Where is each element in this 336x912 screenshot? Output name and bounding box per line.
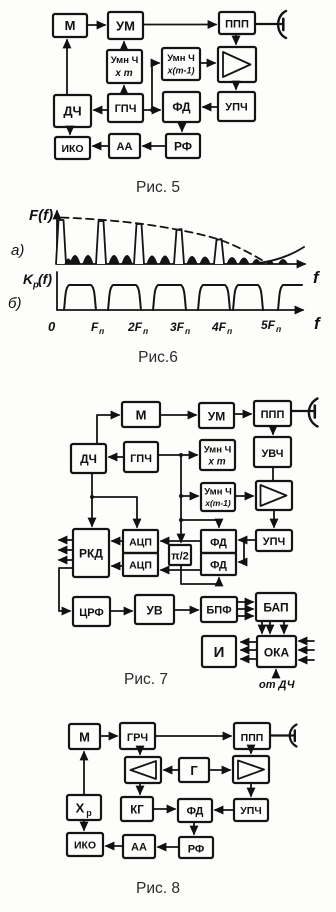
svg-text:б): б)	[8, 295, 21, 312]
wire М to ГРЧ (fig.8)	[100, 735, 117, 737]
svg-text:М: М	[65, 18, 76, 33]
svg-text:ФД: ФД	[210, 560, 227, 572]
svg-text:ДЧ: ДЧ	[63, 104, 81, 119]
wire УВ to БПФ	[174, 609, 198, 611]
block УПЧ (fig.5)	[218, 92, 255, 121]
block ППП (fig.7)	[254, 401, 291, 426]
filter passband pulse 2	[108, 285, 141, 310]
svg-text:УПЧ: УПЧ	[263, 536, 285, 548]
wire Хр to М (fig.8)	[83, 752, 85, 795]
svg-text:х(m-1): х(m-1)	[204, 498, 231, 508]
block М (fig.5 modulator)	[53, 14, 87, 37]
wire ДЧ up to М input	[97, 415, 119, 444]
block РФ (fig.5)	[166, 134, 200, 158]
wire РФ to АА	[143, 145, 166, 147]
svg-text:(f): (f)	[38, 271, 52, 287]
svg-text:ГРЧ: ГРЧ	[127, 732, 148, 744]
block УМ (fig.5)	[108, 12, 143, 39]
block ФД (fig.8)	[178, 799, 212, 822]
svg-text:от ДЧ: от ДЧ	[259, 679, 295, 691]
wire ППП to УВЧ	[272, 426, 274, 434]
block БПФ (fig.7)	[201, 597, 237, 622]
svg-text:π/2: π/2	[171, 551, 189, 563]
wire УПЧ to ФД	[203, 106, 218, 108]
block УВЧ (fig.7)	[254, 437, 291, 467]
wire Хр to ИКО (fig.8)	[83, 820, 85, 830]
block РФ (fig.8)	[179, 837, 213, 858]
svg-text:а): а)	[11, 242, 24, 259]
svg-text:Рис. 7: Рис. 7	[124, 671, 168, 688]
wire Г to right mixer	[209, 769, 230, 771]
wire АЦП lower to РКД	[112, 565, 123, 567]
svg-text:Умн Ч: Умн Ч	[204, 445, 232, 456]
svg-text:Х: Х	[76, 801, 85, 816]
wire right mixer to УПЧ (fig.8)	[250, 783, 252, 796]
svg-text:М: М	[79, 730, 90, 745]
svg-text:АА: АА	[131, 842, 147, 854]
junction dot ДЧ branch	[90, 495, 94, 499]
wire amplifier to УПЧ (fig.7)	[273, 510, 275, 527]
wire Г to left mixer	[164, 769, 179, 771]
spectral line peak 3	[134, 224, 144, 264]
svg-text:х(m-1): х(m-1)	[166, 66, 194, 76]
filter horizontal axis	[57, 309, 303, 311]
wire ГПЧ to ДЧ	[94, 109, 108, 111]
wire bus to Умн Ч х m (fig.7)	[181, 454, 197, 456]
svg-text:3F: 3F	[170, 320, 185, 334]
block ГРЧ (fig.8)	[120, 723, 155, 749]
block ГПЧ (fig.7)	[124, 442, 158, 472]
block ЦРФ (fig.7)	[73, 597, 110, 626]
block БАП (fig.7)	[256, 593, 296, 621]
dashed spectrum envelope	[61, 218, 265, 263]
wire ППП to right mixer	[250, 749, 252, 753]
svg-text:АА: АА	[117, 141, 133, 153]
block Г (fig.8)	[179, 758, 209, 782]
svg-text:п: п	[99, 326, 105, 336]
svg-text:4F: 4F	[211, 320, 227, 334]
wire УПЧ to ФД pair	[239, 540, 256, 562]
svg-text:Умн Ч: Умн Ч	[111, 55, 139, 66]
block ДЧ (fig.7)	[71, 444, 106, 473]
wire ГПЧ distribution bus	[158, 455, 181, 542]
filter passband pulse 5	[233, 285, 263, 310]
svg-text:ФД: ФД	[172, 100, 191, 114]
svg-text:М: М	[136, 408, 147, 423]
bus БАП to ОКА (3 lines)	[262, 621, 284, 633]
wire ДЧ down to РКД	[91, 473, 93, 526]
svg-text:х m: х m	[207, 457, 225, 468]
wire ГПЧ to Умн Ч х m	[123, 86, 125, 94]
wire Умн Ч х(m-1) to amplifier (fig.7)	[235, 495, 253, 497]
svg-text:КГ: КГ	[130, 805, 144, 817]
wire М to УМ	[87, 24, 105, 26]
block УМ (fig.7)	[199, 403, 234, 428]
svg-text:ИКО: ИКО	[61, 143, 83, 155]
wire от ДЧ into ОКА bottom	[275, 670, 277, 677]
phase shifter π/2 (fig.7)	[169, 545, 191, 565]
svg-text:х m: х m	[114, 68, 132, 79]
wire left mixer to КГ	[139, 783, 141, 794]
svg-text:ОКА: ОКА	[264, 646, 290, 660]
wire amplifier to УПЧ	[235, 82, 237, 89]
wire РКД to ЦРФ	[59, 568, 73, 611]
wire ГРЧ to ППП (fig.8)	[155, 735, 231, 737]
wire ФД to РФ	[181, 122, 183, 131]
wire ГРЧ to left mixer	[139, 749, 141, 754]
spectral line peak 5	[214, 239, 224, 264]
amplifier triangle block (fig.7)	[256, 481, 292, 510]
block Умн Ч х(m-1) (fig.5)	[162, 48, 200, 80]
svg-text:п: п	[185, 326, 191, 336]
svg-text:УПЧ: УПЧ	[240, 805, 261, 817]
wire РФ to АА (fig.8)	[158, 846, 179, 848]
wire ППП to amplifier	[235, 34, 237, 44]
wire УПЧ to ФД (fig.8)	[215, 809, 234, 811]
filter passband pulse 6 (truncated)	[278, 285, 302, 310]
svg-text:р: р	[86, 808, 92, 818]
svg-text:УПЧ: УПЧ	[225, 102, 247, 114]
svg-text:ЦРФ: ЦРФ	[79, 607, 104, 619]
block Хр (fig.8)	[67, 795, 101, 820]
wire УМ to ППП (fig.7)	[234, 413, 251, 415]
wire ФД upper to АЦП upper	[161, 540, 201, 542]
svg-text:2F: 2F	[127, 320, 143, 334]
svg-text:Рис.6: Рис.6	[138, 349, 178, 366]
rising envelope lobe curve	[253, 247, 304, 264]
svg-text:РФ: РФ	[174, 140, 192, 154]
svg-text:АЦП: АЦП	[129, 560, 152, 572]
spectrum horizontal axis	[57, 263, 305, 265]
block М (fig.8)	[69, 724, 100, 749]
block АА (fig.8)	[123, 835, 155, 858]
wire ЦРФ to УВ	[110, 610, 132, 612]
svg-text:0: 0	[48, 319, 56, 334]
mixer triangle block left (fig.8)	[125, 757, 161, 783]
block Умн Ч х m (fig.7)	[200, 440, 235, 470]
block М (fig.7)	[122, 402, 160, 427]
wire АЦП upper to РКД	[112, 540, 123, 542]
block ОКА (fig.7)	[257, 636, 296, 667]
svg-text:ГПЧ: ГПЧ	[115, 103, 137, 115]
wire ДЧ to ИКО	[69, 127, 71, 134]
block УПЧ (fig.8)	[234, 799, 268, 821]
svg-text:БПФ: БПФ	[206, 605, 231, 617]
wire Умн Ч х(m-1) to amplifier	[200, 62, 215, 64]
frequency tick labels	[48, 318, 282, 336]
svg-text:5F: 5F	[261, 318, 276, 332]
mixer triangle block right (fig.8)	[233, 756, 269, 783]
svg-text:ППП: ППП	[225, 19, 249, 31]
svg-text:f: f	[313, 268, 321, 287]
junction dots on bus	[179, 453, 183, 522]
block КГ (fig.8)	[121, 797, 153, 821]
wire АА to ИКО (fig.8)	[106, 845, 123, 847]
svg-text:ДЧ: ДЧ	[80, 452, 97, 466]
wire М to УМ (fig.7)	[160, 414, 196, 416]
wire ФД to РФ (fig.8)	[193, 822, 195, 834]
block АА (fig.5)	[109, 134, 140, 158]
block ФД lower (fig.7)	[201, 553, 236, 575]
wire КГ to ФД (fig.8)	[153, 808, 175, 810]
svg-text:Умн Ч: Умн Ч	[204, 487, 232, 498]
svg-text:УМ: УМ	[208, 410, 225, 424]
filter passband pulse 4	[198, 285, 230, 310]
svg-text:РКД: РКД	[79, 547, 103, 561]
block Умн Ч х m (fig.5)	[107, 50, 142, 83]
wire ГПЧ to ФД	[143, 109, 160, 111]
axis label Kp(f)	[23, 271, 52, 291]
block ФД upper (fig.7)	[201, 530, 236, 553]
wire ДЧ to М	[66, 40, 68, 95]
amplifier triangle block (fig.5)	[218, 47, 256, 82]
wire bus to Умн Ч х(m-1) (fig.7)	[181, 495, 198, 497]
bus ОКА to И (3 lines)	[241, 642, 257, 659]
svg-text:Умн Ч: Умн Ч	[167, 53, 195, 64]
wire junction branch to Умн Ч х(m-1)	[150, 63, 159, 112]
block ДЧ (fig.5)	[54, 95, 91, 127]
wire π/2 to ФД lower	[181, 565, 219, 584]
svg-text:УВЧ: УВЧ	[261, 448, 283, 460]
block ППП (fig.5)	[219, 12, 255, 34]
svg-text:п: п	[227, 326, 233, 336]
svg-text:Г: Г	[190, 763, 198, 778]
wire АА to ИКО	[93, 145, 109, 147]
svg-text:АЦП: АЦП	[129, 537, 152, 549]
antenna (fig.7)	[291, 399, 318, 427]
wire bus to ФД upper	[181, 520, 219, 527]
svg-text:БАП: БАП	[263, 601, 288, 615]
svg-text:Рис. 5: Рис. 5	[136, 179, 180, 196]
svg-text:РФ: РФ	[188, 844, 205, 856]
svg-text:п: п	[143, 326, 149, 336]
block ИКО (fig.8)	[67, 833, 103, 856]
spectrum vertical axis	[56, 211, 58, 264]
block ФД (fig.5)	[163, 92, 200, 122]
block АЦП upper (fig.7)	[123, 530, 158, 553]
spectral line peak 2	[96, 221, 106, 264]
svg-text:УМ: УМ	[116, 19, 135, 34]
wire УВЧ to amplifier	[272, 467, 274, 481]
wire ДЧ branch to АЦП upper	[92, 497, 137, 527]
svg-text:ППП: ППП	[261, 409, 285, 421]
svg-text:F: F	[91, 320, 99, 334]
block АЦП lower (fig.7)	[123, 553, 158, 576]
svg-text:ГПЧ: ГПЧ	[130, 453, 152, 465]
block УПЧ (fig.7)	[256, 530, 292, 551]
spectral line peak 4	[174, 229, 184, 264]
svg-text:ФД: ФД	[210, 537, 227, 549]
spectrum side lobes (filled)	[65, 255, 289, 264]
bus БПФ to БАП (3 lines)	[237, 602, 253, 616]
svg-text:ФД: ФД	[187, 806, 204, 818]
input bus into ОКА right (3 lines)	[299, 641, 314, 660]
spectral line peak 1	[56, 220, 66, 264]
wire ФД lower to АЦП lower	[161, 569, 201, 571]
block ИКО (fig.5)	[55, 137, 90, 159]
wire Умн Ч х m to УМ	[123, 42, 125, 50]
svg-text:ППП: ППП	[241, 732, 264, 744]
wire ГПЧ to ДЧ (fig.7)	[109, 456, 124, 458]
svg-text:И: И	[214, 644, 225, 661]
svg-text:F(f): F(f)	[29, 207, 53, 224]
РКД output arrows left	[59, 540, 73, 560]
svg-text:УВ: УВ	[146, 604, 162, 618]
svg-text:f: f	[314, 314, 322, 333]
block Умн Ч х(m-1) (fig.7)	[201, 483, 235, 511]
block ППП (fig.8)	[234, 723, 270, 749]
wire УМ to ППП	[143, 24, 216, 26]
filter passband pulse 1	[64, 285, 96, 310]
filter vertical axis	[56, 272, 58, 310]
antenna (fig.8)	[270, 725, 297, 747]
block УВ (fig.7)	[135, 595, 174, 624]
block РКД (fig.7)	[73, 529, 109, 577]
block ГПЧ (fig.5)	[108, 94, 143, 122]
svg-text:п: п	[276, 324, 282, 334]
filter passband pulse 3	[153, 285, 186, 310]
svg-text:Рис. 8: Рис. 8	[136, 880, 180, 897]
antenna (fig.5)	[255, 11, 286, 38]
block И (fig.7)	[202, 636, 236, 667]
svg-text:ИКО: ИКО	[74, 840, 96, 852]
